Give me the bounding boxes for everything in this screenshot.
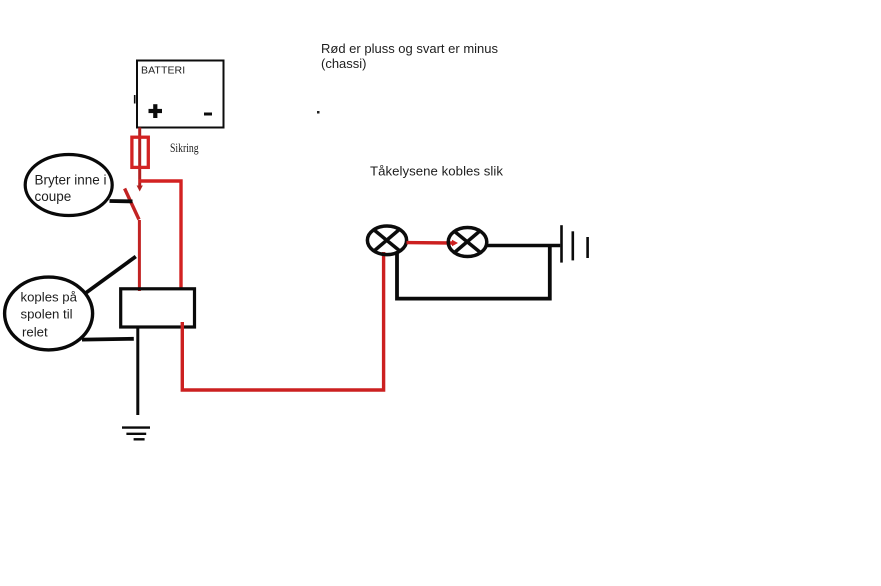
- arrow tip under junction: [137, 186, 143, 192]
- battery plus terminal: [149, 104, 163, 118]
- wire: relay output down, across, up to lamp 1 (red): [182, 252, 383, 390]
- wire: relay to ground (black): [136, 329, 139, 416]
- note text: Rød er pluss og svart er minus (chassi): [321, 41, 499, 71]
- chassis ground bars (right): [562, 225, 588, 262]
- pointer: balloon to coil wire (diagonal): [85, 257, 136, 294]
- balloon: Bryter inne i coupe: [25, 155, 112, 216]
- svg-text:Sikring: Sikring: [170, 142, 199, 156]
- wire: switch to relay (red): [138, 220, 141, 291]
- wire: black return loop lamp2 corner to lamp1 bottom: [397, 246, 550, 299]
- stray dot: [317, 111, 320, 114]
- svg-text:relet: relet: [22, 325, 48, 340]
- svg-text:Rød er pluss og svart er minus: Rød er pluss og svart er minus: [321, 41, 499, 56]
- pointer: balloon to relay bottom: [82, 337, 134, 342]
- lamp L1: [367, 226, 406, 255]
- balloon: koples på spolen til relet: [5, 277, 93, 350]
- relay K1: [121, 289, 195, 327]
- svg-text:Bryter inne i: Bryter inne i: [35, 172, 107, 187]
- fuse F1 (Sikring): [132, 137, 148, 167]
- svg-text:spolen til: spolen til: [21, 306, 73, 321]
- lamp L2: [448, 228, 487, 257]
- svg-text:Tåkelysene kobles slik: Tåkelysene kobles slik: [370, 164, 503, 179]
- wire: lamp1 to lamp2 (red): [407, 241, 453, 245]
- switch S1 (red blade): [125, 189, 139, 220]
- battery left-edge notch: [134, 95, 136, 104]
- ground symbol (bottom): [122, 428, 150, 440]
- wire: lamp2 to chassis (black): [487, 244, 561, 248]
- arrow tip into lamp2: [452, 240, 458, 246]
- wire: battery plus down through fuse (red): [138, 128, 141, 186]
- battery minus terminal: [204, 113, 212, 116]
- battery box: [137, 61, 224, 128]
- svg-text:(chassi): (chassi): [321, 56, 367, 71]
- pointer: balloon to switch: [110, 199, 133, 203]
- svg-text:BATTERI: BATTERI: [141, 65, 185, 77]
- wire: junction to right then down to relay (red): [139, 181, 182, 288]
- svg-text:koples på: koples på: [21, 290, 78, 305]
- svg-text:coupe: coupe: [35, 189, 72, 204]
